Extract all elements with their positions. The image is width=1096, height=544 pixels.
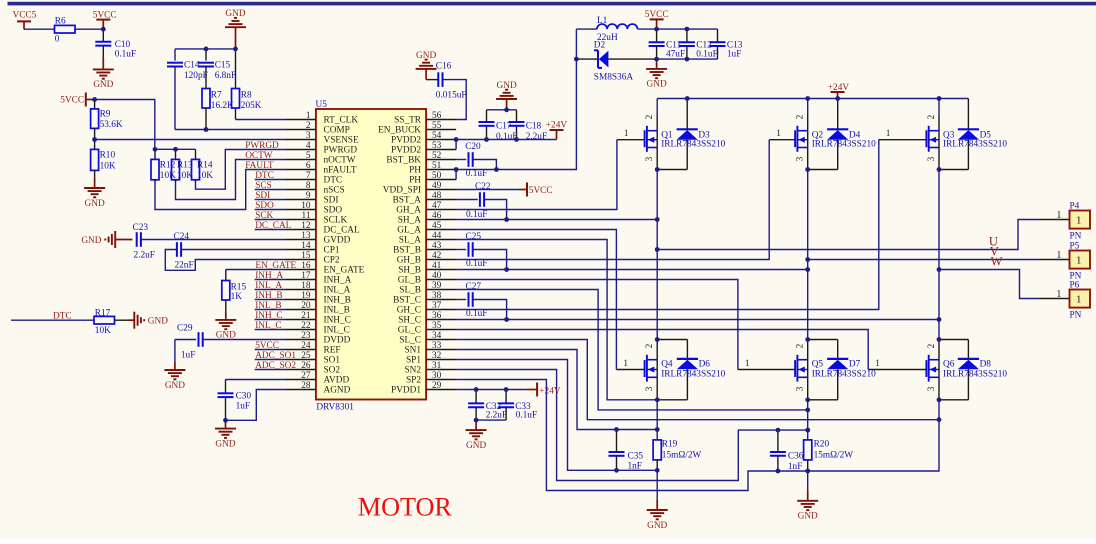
svg-text:IRLR7843SS210: IRLR7843SS210 <box>812 370 876 380</box>
svg-text:nSCS: nSCS <box>324 186 345 196</box>
svg-text:1: 1 <box>1056 210 1061 221</box>
svg-text:0.1uF: 0.1uF <box>115 50 136 60</box>
svg-text:C20: C20 <box>465 142 481 152</box>
svg-text:INH_B: INH_B <box>255 291 282 301</box>
svg-text:0.1uF: 0.1uF <box>466 169 487 179</box>
svg-text:PN: PN <box>1070 311 1082 321</box>
svg-text:Q4: Q4 <box>661 359 673 369</box>
svg-text:16: 16 <box>301 261 311 271</box>
svg-text:R17: R17 <box>95 308 111 318</box>
svg-text:U5: U5 <box>316 100 328 110</box>
svg-text:PH: PH <box>409 176 421 186</box>
svg-text:INH_B: INH_B <box>324 296 351 306</box>
svg-text:1: 1 <box>623 359 628 369</box>
svg-text:P4: P4 <box>1070 202 1080 212</box>
svg-text:R9: R9 <box>100 109 111 119</box>
svg-text:PWRGD: PWRGD <box>324 146 358 156</box>
svg-text:R13: R13 <box>177 161 193 171</box>
svg-text:SP2: SP2 <box>406 376 421 386</box>
svg-text:D4: D4 <box>849 131 861 141</box>
svg-text:1uF: 1uF <box>727 49 741 59</box>
svg-text:C17: C17 <box>496 122 512 132</box>
svg-text:SCK: SCK <box>255 211 273 221</box>
svg-text:22: 22 <box>301 321 311 331</box>
svg-text:C15: C15 <box>215 60 231 70</box>
svg-text:29: 29 <box>432 381 442 391</box>
svg-text:1uF: 1uF <box>236 402 250 412</box>
svg-text:INL_A: INL_A <box>255 281 282 291</box>
svg-text:24: 24 <box>301 341 311 351</box>
svg-text:1: 1 <box>1056 250 1061 261</box>
svg-text:47: 47 <box>432 201 442 211</box>
svg-text:SN2: SN2 <box>404 366 421 376</box>
svg-text:C30: C30 <box>236 392 252 402</box>
svg-text:SN1: SN1 <box>404 346 421 356</box>
svg-text:D3: D3 <box>698 131 710 141</box>
svg-text:INH_A: INH_A <box>255 271 283 281</box>
svg-text:SCLK: SCLK <box>324 216 348 226</box>
svg-text:15mΩ/2W: 15mΩ/2W <box>662 450 702 460</box>
svg-text:PH: PH <box>409 166 421 176</box>
svg-text:C10: C10 <box>115 40 131 50</box>
svg-text:GND: GND <box>148 317 168 327</box>
svg-text:SO2: SO2 <box>324 366 341 376</box>
svg-text:2.2uF: 2.2uF <box>526 132 547 142</box>
svg-text:C29: C29 <box>177 324 193 334</box>
svg-text:1: 1 <box>1076 294 1082 306</box>
svg-text:nFAULT: nFAULT <box>324 166 357 176</box>
svg-text:2: 2 <box>306 121 311 131</box>
svg-text:R8: R8 <box>241 91 252 101</box>
svg-text:GND: GND <box>165 381 185 391</box>
svg-text:SM8S36A: SM8S36A <box>594 72 634 82</box>
svg-text:53: 53 <box>432 141 442 151</box>
svg-text:RT_CLK: RT_CLK <box>324 116 359 126</box>
svg-text:DTC: DTC <box>324 176 343 186</box>
svg-text:1nF: 1nF <box>628 461 642 471</box>
svg-text:SDI: SDI <box>255 191 270 201</box>
svg-text:SS_TR: SS_TR <box>394 116 422 126</box>
svg-text:C36: C36 <box>788 451 804 461</box>
svg-text:GND: GND <box>85 199 105 209</box>
svg-text:R12: R12 <box>160 161 176 171</box>
svg-text:3: 3 <box>306 131 311 141</box>
svg-text:C16: C16 <box>436 62 452 72</box>
svg-text:5VCC: 5VCC <box>529 186 553 196</box>
svg-text:VCC5: VCC5 <box>13 11 37 21</box>
svg-text:2: 2 <box>796 343 806 348</box>
svg-text:3: 3 <box>927 386 937 391</box>
svg-text:26: 26 <box>301 361 311 371</box>
svg-text:50: 50 <box>432 171 442 181</box>
svg-text:41: 41 <box>432 261 442 271</box>
svg-text:SL_B: SL_B <box>399 286 421 296</box>
svg-text:SDO: SDO <box>324 206 343 216</box>
svg-text:GND: GND <box>647 521 667 531</box>
svg-text:22nF: 22nF <box>175 260 194 270</box>
svg-text:GND: GND <box>416 51 436 61</box>
svg-text:10K: 10K <box>160 171 176 181</box>
svg-text:5: 5 <box>306 151 311 161</box>
svg-text:INH_C: INH_C <box>255 311 282 321</box>
svg-text:P5: P5 <box>1070 242 1080 252</box>
svg-text:53.6K: 53.6K <box>100 120 123 130</box>
svg-text:2: 2 <box>645 343 655 348</box>
svg-text:35: 35 <box>432 321 442 331</box>
svg-text:10K: 10K <box>177 171 193 181</box>
svg-text:INL_B: INL_B <box>255 301 281 311</box>
svg-text:R10: R10 <box>100 151 116 161</box>
svg-text:BST_B: BST_B <box>393 246 421 256</box>
svg-text:R19: R19 <box>662 440 678 450</box>
svg-text:GND: GND <box>81 236 101 246</box>
svg-text:FAULT: FAULT <box>245 161 274 171</box>
svg-text:14: 14 <box>301 241 311 251</box>
svg-text:SDO: SDO <box>255 201 274 211</box>
svg-text:GH_C: GH_C <box>397 306 421 316</box>
svg-text:SP1: SP1 <box>406 356 421 366</box>
svg-text:R14: R14 <box>197 161 213 171</box>
svg-text:W: W <box>991 255 1003 269</box>
svg-text:0.1uF: 0.1uF <box>516 410 537 420</box>
svg-text:0.1uF: 0.1uF <box>696 49 717 59</box>
svg-text:C14: C14 <box>184 60 200 70</box>
svg-text:1uF: 1uF <box>181 350 195 360</box>
svg-text:1: 1 <box>886 129 891 139</box>
svg-text:46: 46 <box>432 211 442 221</box>
svg-text:10: 10 <box>301 201 311 211</box>
svg-text:34: 34 <box>432 331 442 341</box>
svg-text:2.2uF: 2.2uF <box>134 250 155 260</box>
svg-text:D2: D2 <box>594 41 606 51</box>
svg-text:1: 1 <box>776 129 781 139</box>
svg-text:33: 33 <box>432 341 442 351</box>
svg-text:2: 2 <box>927 343 937 348</box>
svg-text:IRLR7843SS210: IRLR7843SS210 <box>812 140 876 150</box>
svg-text:1: 1 <box>875 359 880 369</box>
svg-text:Q5: Q5 <box>812 359 824 369</box>
svg-text:17: 17 <box>301 271 311 281</box>
svg-text:205K: 205K <box>241 101 262 111</box>
svg-text:120pF: 120pF <box>184 71 208 81</box>
svg-text:31: 31 <box>432 361 442 371</box>
svg-text:GL_B: GL_B <box>398 276 421 286</box>
svg-text:VDD_SPI: VDD_SPI <box>383 186 421 196</box>
svg-text:0.1uF: 0.1uF <box>496 132 517 142</box>
svg-text:11: 11 <box>302 211 311 221</box>
svg-text:1: 1 <box>1056 289 1061 300</box>
svg-text:GND: GND <box>215 439 235 449</box>
svg-text:SCS: SCS <box>255 181 272 191</box>
svg-text:GH_B: GH_B <box>397 256 421 266</box>
svg-text:7: 7 <box>306 171 311 181</box>
svg-text:36: 36 <box>432 311 442 321</box>
svg-text:21: 21 <box>301 311 311 321</box>
svg-text:IRLR7843SS210: IRLR7843SS210 <box>943 370 1007 380</box>
svg-text:SH_A: SH_A <box>398 216 422 226</box>
svg-text:6: 6 <box>306 161 311 171</box>
svg-text:5VCC: 5VCC <box>60 96 84 106</box>
svg-text:51: 51 <box>432 161 442 171</box>
svg-text:1: 1 <box>306 111 311 121</box>
svg-text:0.015uF: 0.015uF <box>436 90 467 100</box>
svg-text:GH_A: GH_A <box>396 206 421 216</box>
svg-text:C24: C24 <box>174 232 190 242</box>
svg-text:SL_C: SL_C <box>399 336 421 346</box>
svg-text:56: 56 <box>432 111 442 121</box>
svg-text:37: 37 <box>432 301 442 311</box>
svg-text:GL_C: GL_C <box>398 326 421 336</box>
svg-text:13: 13 <box>301 231 311 241</box>
svg-text:8: 8 <box>306 181 311 191</box>
svg-text:6.8nF: 6.8nF <box>215 71 236 81</box>
svg-text:10K: 10K <box>95 326 111 336</box>
svg-text:0.1uF: 0.1uF <box>466 259 487 269</box>
svg-text:GVDD: GVDD <box>324 236 351 246</box>
svg-text:GND: GND <box>798 512 818 522</box>
svg-text:BST_C: BST_C <box>393 296 421 306</box>
svg-text:3: 3 <box>645 156 655 161</box>
svg-text:C18: C18 <box>526 122 542 132</box>
svg-text:30: 30 <box>432 371 442 381</box>
svg-text:R7: R7 <box>211 91 222 101</box>
svg-text:1K: 1K <box>231 292 243 302</box>
svg-text:47uF: 47uF <box>666 49 685 59</box>
svg-text:PVDD2: PVDD2 <box>391 146 421 156</box>
svg-text:12: 12 <box>301 221 311 231</box>
svg-text:39: 39 <box>432 281 442 291</box>
svg-text:AGND: AGND <box>324 386 351 396</box>
svg-text:INH_C: INH_C <box>324 316 351 326</box>
svg-text:SO1: SO1 <box>324 356 341 366</box>
svg-text:23: 23 <box>301 331 311 341</box>
svg-text:3: 3 <box>796 156 806 161</box>
svg-text:28: 28 <box>301 381 311 391</box>
svg-text:5VCC: 5VCC <box>255 341 279 351</box>
svg-text:PWRGD: PWRGD <box>245 141 279 151</box>
svg-text:20: 20 <box>301 301 311 311</box>
svg-text:GND: GND <box>225 9 245 19</box>
svg-text:INL_B: INL_B <box>324 306 350 316</box>
svg-text:D5: D5 <box>980 131 992 141</box>
svg-text:10K: 10K <box>197 171 213 181</box>
svg-text:GND: GND <box>647 80 667 90</box>
svg-text:32: 32 <box>432 351 442 361</box>
svg-text:40: 40 <box>432 271 442 281</box>
svg-text:1: 1 <box>1076 255 1082 267</box>
svg-text:L1: L1 <box>597 16 608 26</box>
svg-text:VSENSE: VSENSE <box>324 136 359 146</box>
svg-text:2: 2 <box>645 114 655 119</box>
svg-text:AVDD: AVDD <box>324 376 350 386</box>
svg-text:D7: D7 <box>849 359 861 369</box>
svg-text:GND: GND <box>497 81 517 91</box>
svg-text:18: 18 <box>301 281 311 291</box>
svg-text:SH_B: SH_B <box>398 266 421 276</box>
svg-text:nOCTW: nOCTW <box>324 156 356 166</box>
svg-text:R20: R20 <box>814 440 830 450</box>
svg-text:BST_A: BST_A <box>393 196 422 206</box>
svg-text:D6: D6 <box>699 359 711 369</box>
svg-text:0.1uF: 0.1uF <box>466 210 487 220</box>
svg-text:C27: C27 <box>466 282 482 292</box>
svg-text:DTC: DTC <box>53 312 72 322</box>
svg-text:27: 27 <box>301 371 311 381</box>
svg-text:1: 1 <box>1076 215 1082 227</box>
svg-text:INL_A: INL_A <box>324 286 351 296</box>
svg-text:19: 19 <box>301 291 311 301</box>
svg-text:1nF: 1nF <box>788 462 802 472</box>
svg-text:42: 42 <box>432 251 442 261</box>
svg-text:16.2K: 16.2K <box>211 101 234 111</box>
svg-text:54: 54 <box>432 131 442 141</box>
svg-text:IRLR7843SS210: IRLR7843SS210 <box>661 370 725 380</box>
svg-text:10K: 10K <box>100 161 116 171</box>
svg-text:PN: PN <box>1070 232 1082 242</box>
svg-text:C22: C22 <box>475 182 491 192</box>
svg-text:MOTOR: MOTOR <box>358 492 453 521</box>
svg-text:GL_A: GL_A <box>397 226 421 236</box>
svg-text:SL_A: SL_A <box>399 236 421 246</box>
svg-text:15mΩ/2W: 15mΩ/2W <box>814 450 854 460</box>
svg-text:EN_BUCK: EN_BUCK <box>378 126 421 136</box>
svg-text:DRV8301: DRV8301 <box>316 403 354 413</box>
svg-text:2: 2 <box>927 114 937 119</box>
svg-text:2: 2 <box>796 114 806 119</box>
svg-text:SDI: SDI <box>324 196 339 206</box>
svg-text:IRLR7843SS210: IRLR7843SS210 <box>943 140 1007 150</box>
svg-text:CP2: CP2 <box>324 256 340 266</box>
svg-text:CP1: CP1 <box>324 246 340 256</box>
svg-text:DTC: DTC <box>255 171 274 181</box>
svg-text:COMP: COMP <box>324 126 350 136</box>
svg-text:+24V: +24V <box>539 387 561 397</box>
svg-text:GND: GND <box>93 80 113 90</box>
svg-text:R6: R6 <box>55 17 66 27</box>
svg-text:25: 25 <box>301 351 311 361</box>
svg-text:REF: REF <box>324 346 341 356</box>
svg-text:INL_C: INL_C <box>255 321 281 331</box>
svg-text:52: 52 <box>432 151 442 161</box>
svg-text:D8: D8 <box>980 359 992 369</box>
svg-text:PVDD2: PVDD2 <box>391 136 421 146</box>
svg-text:GND: GND <box>466 441 486 451</box>
svg-text:3: 3 <box>927 156 937 161</box>
svg-text:1: 1 <box>624 129 629 139</box>
svg-text:P6: P6 <box>1070 281 1080 291</box>
svg-text:DVDD: DVDD <box>324 336 351 346</box>
svg-text:C35: C35 <box>628 451 644 461</box>
svg-text:BST_BK: BST_BK <box>386 156 421 166</box>
svg-text:+24V: +24V <box>546 121 568 131</box>
svg-text:9: 9 <box>306 191 311 201</box>
svg-text:48: 48 <box>432 191 442 201</box>
svg-text:0.1uF: 0.1uF <box>466 309 487 319</box>
svg-text:45: 45 <box>432 221 442 231</box>
svg-text:SH_C: SH_C <box>398 316 421 326</box>
svg-text:INH_A: INH_A <box>324 276 352 286</box>
svg-text:49: 49 <box>432 181 442 191</box>
svg-text:PVDD1: PVDD1 <box>391 386 421 396</box>
svg-text:55: 55 <box>432 121 442 131</box>
svg-text:C25: C25 <box>466 232 482 242</box>
svg-text:38: 38 <box>432 291 442 301</box>
svg-text:44: 44 <box>432 231 442 241</box>
svg-text:43: 43 <box>432 241 442 251</box>
svg-text:EN_GATE: EN_GATE <box>324 266 365 276</box>
svg-text:15: 15 <box>301 251 311 261</box>
svg-text:INL_C: INL_C <box>324 326 350 336</box>
svg-text:Q6: Q6 <box>943 359 955 369</box>
svg-text:0: 0 <box>55 34 60 44</box>
svg-text:OCTW: OCTW <box>245 151 273 161</box>
svg-text:DC_CAL: DC_CAL <box>324 226 360 236</box>
svg-text:3: 3 <box>796 386 806 391</box>
svg-text:3: 3 <box>645 386 655 391</box>
svg-text:2.2uF: 2.2uF <box>486 410 507 420</box>
svg-text:1: 1 <box>745 359 750 369</box>
svg-text:IRLR7843SS210: IRLR7843SS210 <box>661 140 725 150</box>
svg-text:4: 4 <box>306 141 311 151</box>
svg-text:C23: C23 <box>133 223 149 233</box>
